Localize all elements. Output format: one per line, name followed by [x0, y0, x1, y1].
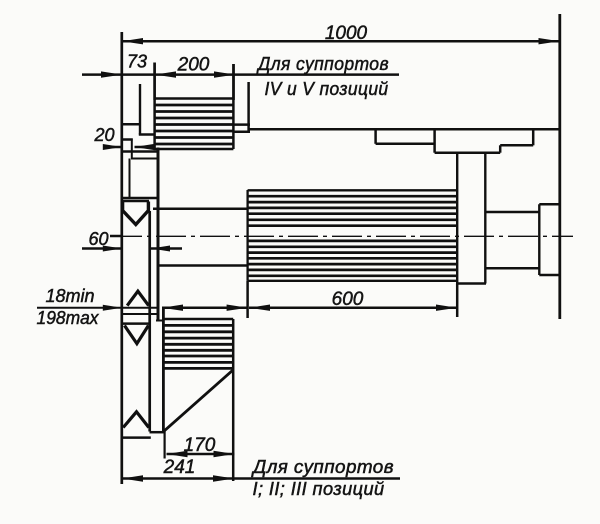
top gear block spline lines — [154, 105, 234, 144]
extension line left (x=122) / faceplate left edge — [120, 32, 123, 484]
chevron 1 top line — [121, 200, 149, 203]
dimension 60 left segment with arrow — [82, 247, 122, 250]
bottom gear block top edge — [163, 318, 233, 321]
svg-text:I; II; III позиций: I; II; III позиций — [253, 479, 385, 499]
svg-text:73: 73 — [127, 52, 147, 72]
bottom gear block left edge — [162, 309, 165, 433]
svg-text:Для суппортов: Для суппортов — [251, 457, 394, 477]
hanger column bottom cap — [456, 282, 486, 285]
dimension 170 line — [167, 453, 235, 456]
housing step 2 right wall — [499, 145, 502, 152]
spindle nose: top edge — [121, 123, 141, 126]
middle shaft bottom edge — [157, 264, 248, 267]
right pin of top gear block — [247, 82, 250, 131]
spindle nose: 20-extension stub — [131, 139, 133, 159]
svg-text:241: 241 — [163, 457, 196, 478]
svg-text:18min: 18min — [45, 286, 94, 306]
housing step 1 left wall — [374, 129, 377, 144]
dimension 1000 left arrow — [122, 38, 143, 44]
support wedge hypotenuse — [165, 370, 234, 431]
extension line cylinder right — [456, 284, 459, 318]
splined cylinder outline — [248, 190, 458, 281]
dimension 1000 line — [122, 40, 560, 43]
spindle nose: small step edge — [121, 138, 133, 141]
extension line x=155 — [153, 63, 156, 101]
chevron 1 (down V) — [123, 202, 149, 225]
svg-text:198max: 198max — [37, 308, 100, 328]
left pin of top gear block — [139, 84, 141, 135]
svg-text:170: 170 — [184, 435, 216, 456]
hanger column left edge — [456, 153, 458, 284]
svg-text:200: 200 — [177, 55, 210, 76]
svg-text:20: 20 — [93, 125, 114, 145]
svg-text:IV и V позиций: IV и V позиций — [265, 79, 389, 99]
housing top line — [249, 128, 560, 131]
housing step 3 wall — [532, 129, 535, 145]
dimension 20 right arrow — [135, 146, 156, 149]
step between faceplate and gear block bottom — [150, 431, 165, 434]
label 60 leader — [110, 235, 122, 238]
extension line from wedge foot — [164, 431, 166, 459]
arrow into x=122 (73 left) — [101, 71, 122, 77]
splined cylinder spline lines — [248, 196, 457, 276]
faceplate right edge — [148, 211, 151, 432]
hanger column right edge — [484, 153, 486, 284]
housing step 2 bottom — [500, 144, 533, 147]
svg-text:1000: 1000 — [325, 23, 368, 44]
housing boss bottom — [435, 151, 501, 154]
chevron 3 (up) — [123, 412, 149, 428]
svg-text:60: 60 — [88, 229, 108, 249]
main right vertical (machine face x=560) — [558, 14, 561, 319]
flange face vertical (x=158) — [157, 148, 160, 322]
bottom gear block spline lines — [165, 325, 234, 368]
center line (axis) — [112, 235, 573, 237]
dimension 60 right arrow — [151, 247, 182, 250]
extension line x=235 — [232, 64, 235, 100]
housing step 1 bottom — [376, 143, 435, 146]
right stub shaft bottom — [485, 267, 539, 270]
dimension 73/200 line with text underline — [82, 73, 399, 76]
end block bottom — [539, 274, 560, 277]
dimension 1000 right arrow — [539, 38, 560, 44]
chevron 2 top line — [122, 322, 150, 325]
chevron 2 (V) — [125, 326, 149, 344]
spindle nose: shoulder line — [121, 150, 158, 153]
end block top — [539, 203, 560, 206]
spindle nose: recess bottom — [121, 197, 158, 200]
svg-text:Для суппортов: Для суппортов — [256, 54, 389, 74]
spindle nose: recess left wall — [129, 159, 131, 199]
tab right of gear block bottom line — [233, 131, 250, 134]
dimension 241 line with bottom text underline — [122, 477, 400, 480]
top gear block (supports IV/V) outline — [154, 63, 234, 150]
faceplate slot line 2 — [122, 313, 159, 315]
faceplate bottom cap — [121, 436, 151, 439]
extension line cylinder left — [246, 281, 249, 318]
arrow at x=155 — [155, 71, 176, 77]
ledge under pin — [139, 133, 155, 136]
arrow at x=235 — [214, 71, 235, 77]
dimension 20 left segment with arrow — [103, 146, 122, 149]
svg-text:600: 600 — [332, 289, 364, 310]
18min/198max fraction line across faceplate — [37, 307, 159, 309]
middle shaft top edge — [153, 207, 248, 210]
spindle nose: inner shoulder line — [131, 158, 157, 160]
right stub shaft top — [485, 211, 539, 214]
housing boss left wall — [433, 129, 436, 152]
tab bottom under flange — [156, 320, 165, 322]
bottom gear block right edge / extension — [232, 319, 235, 481]
chevron up (mid) — [127, 291, 148, 305]
tab right of gear block top line — [233, 123, 250, 126]
end block left wall — [538, 204, 540, 275]
dimension 600 line — [249, 306, 457, 309]
gap dimension arrows (18..198) right side — [162, 306, 248, 309]
